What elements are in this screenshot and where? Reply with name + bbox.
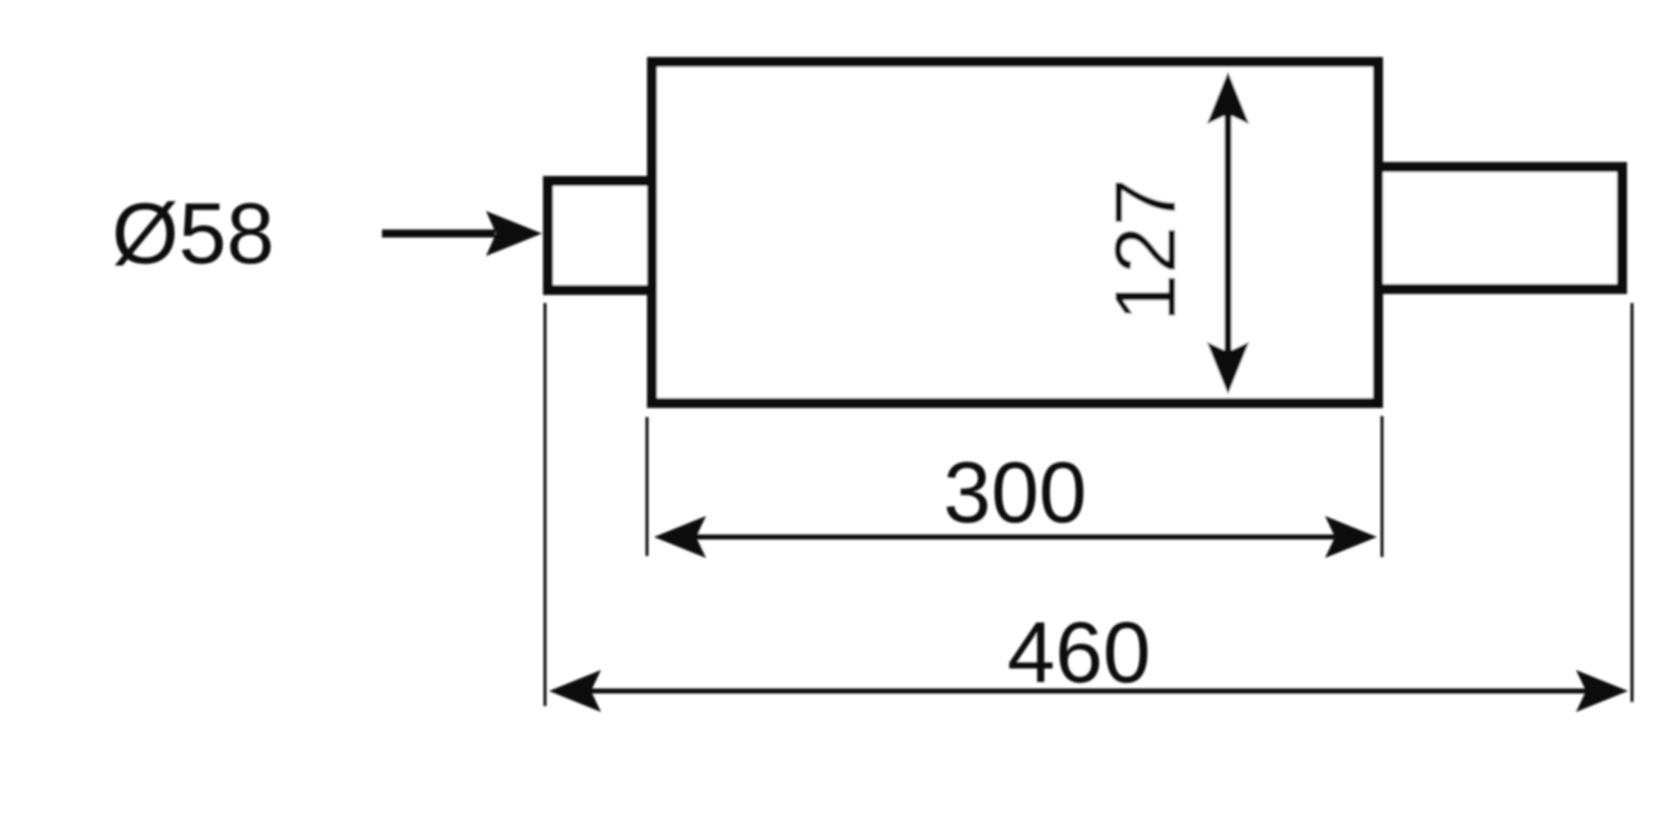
outlet pipe (right) [1378, 167, 1622, 289]
muffler body (300x127 box) [652, 62, 1378, 403]
dimension line 460 [585, 689, 1592, 694]
dimension line 300 [690, 535, 1345, 540]
leader arrow shaft to inlet pipe [382, 230, 495, 238]
arrowhead left 300 [654, 516, 706, 558]
svg-text:300: 300 [943, 445, 1087, 541]
extension line right for 460 [1631, 303, 1634, 702]
extension line left for 300 [646, 417, 649, 556]
leader arrowhead [486, 211, 542, 256]
arrowhead up [1207, 72, 1249, 124]
extension line left for 460 [544, 303, 547, 706]
arrowhead left 460 [549, 670, 601, 712]
vertical dimension line 127 [1225, 112, 1232, 354]
inlet pipe (left, Ø58) [548, 181, 652, 290]
extension line right for 300 [1381, 416, 1384, 557]
svg-text:127: 127 [1098, 178, 1194, 322]
svg-text:460: 460 [1007, 605, 1151, 701]
arrowhead down [1207, 342, 1249, 394]
svg-text:Ø58: Ø58 [112, 186, 275, 282]
arrowhead right 460 [1576, 670, 1628, 712]
arrowhead right 300 [1325, 516, 1377, 558]
